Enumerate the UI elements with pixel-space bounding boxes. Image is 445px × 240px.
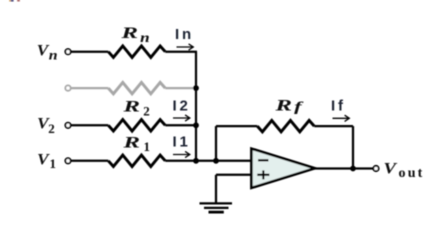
wire gray input xyxy=(71,87,108,89)
wire V2 to R2 xyxy=(71,124,108,126)
wire feedback right vertical xyxy=(352,126,354,168)
bus wire vertical xyxy=(195,52,197,161)
terminal ellipsis (gray input) xyxy=(65,85,70,90)
svg-text:n: n xyxy=(140,30,150,45)
wire V1 to R1 xyxy=(71,160,108,162)
svg-text:I2: I2 xyxy=(173,98,191,115)
current arrow I2 xyxy=(173,115,190,121)
svg-text:R: R xyxy=(122,99,141,116)
wire gray to bus xyxy=(165,87,196,89)
junction gray row xyxy=(193,85,199,91)
wire feedback top left xyxy=(216,125,257,127)
wire feedback left vertical xyxy=(215,126,217,161)
terminal Vn xyxy=(65,49,70,54)
resistor Rf xyxy=(257,120,314,131)
wire to ground xyxy=(215,175,217,203)
svg-text:2: 2 xyxy=(143,104,150,119)
op-amp minus sign xyxy=(258,159,269,161)
terminal V2 xyxy=(65,123,70,128)
op-amp plus sign xyxy=(257,174,269,176)
svg-text:V: V xyxy=(384,161,398,178)
terminal V1 xyxy=(65,158,70,163)
svg-text:2: 2 xyxy=(48,121,55,136)
wire feedback top right xyxy=(314,125,353,127)
wire R2 to bus xyxy=(165,124,197,126)
resistor gray (ellipsis input) xyxy=(108,82,165,93)
junction feedback tap xyxy=(213,158,219,164)
wire non-inverting input xyxy=(216,174,252,176)
svg-text:1: 1 xyxy=(50,156,57,171)
op-amp U1 xyxy=(251,149,315,188)
svg-text:In: In xyxy=(175,26,194,43)
wire R1 to op-amp inverting input xyxy=(165,160,252,162)
resistor R2 xyxy=(108,120,165,131)
svg-text:R: R xyxy=(120,25,139,42)
clipped text speck top-left 1 xyxy=(9,0,11,1)
svg-text:R: R xyxy=(274,98,293,115)
current arrow If xyxy=(333,115,350,121)
svg-text:n: n xyxy=(49,47,58,62)
svg-text:1: 1 xyxy=(144,139,151,154)
terminal Vout xyxy=(373,166,378,171)
current arrow In xyxy=(177,44,194,50)
junction output node xyxy=(350,166,356,172)
wire Rn to bus xyxy=(165,51,197,53)
svg-text:I1: I1 xyxy=(173,134,191,151)
clipped text speck top-left 2 xyxy=(17,0,20,1)
svg-text:If: If xyxy=(331,98,346,115)
current arrow I1 xyxy=(173,151,190,157)
resistor R1 xyxy=(108,155,165,166)
wire Vn to Rn xyxy=(71,51,108,53)
resistor Rn xyxy=(108,46,165,57)
wire output xyxy=(314,167,373,169)
junction I2 row xyxy=(193,122,199,128)
svg-text:f: f xyxy=(294,99,304,114)
svg-text:out: out xyxy=(399,166,425,181)
ground xyxy=(200,203,233,212)
svg-text:R: R xyxy=(122,134,141,151)
junction I1 row at bus xyxy=(193,158,199,164)
